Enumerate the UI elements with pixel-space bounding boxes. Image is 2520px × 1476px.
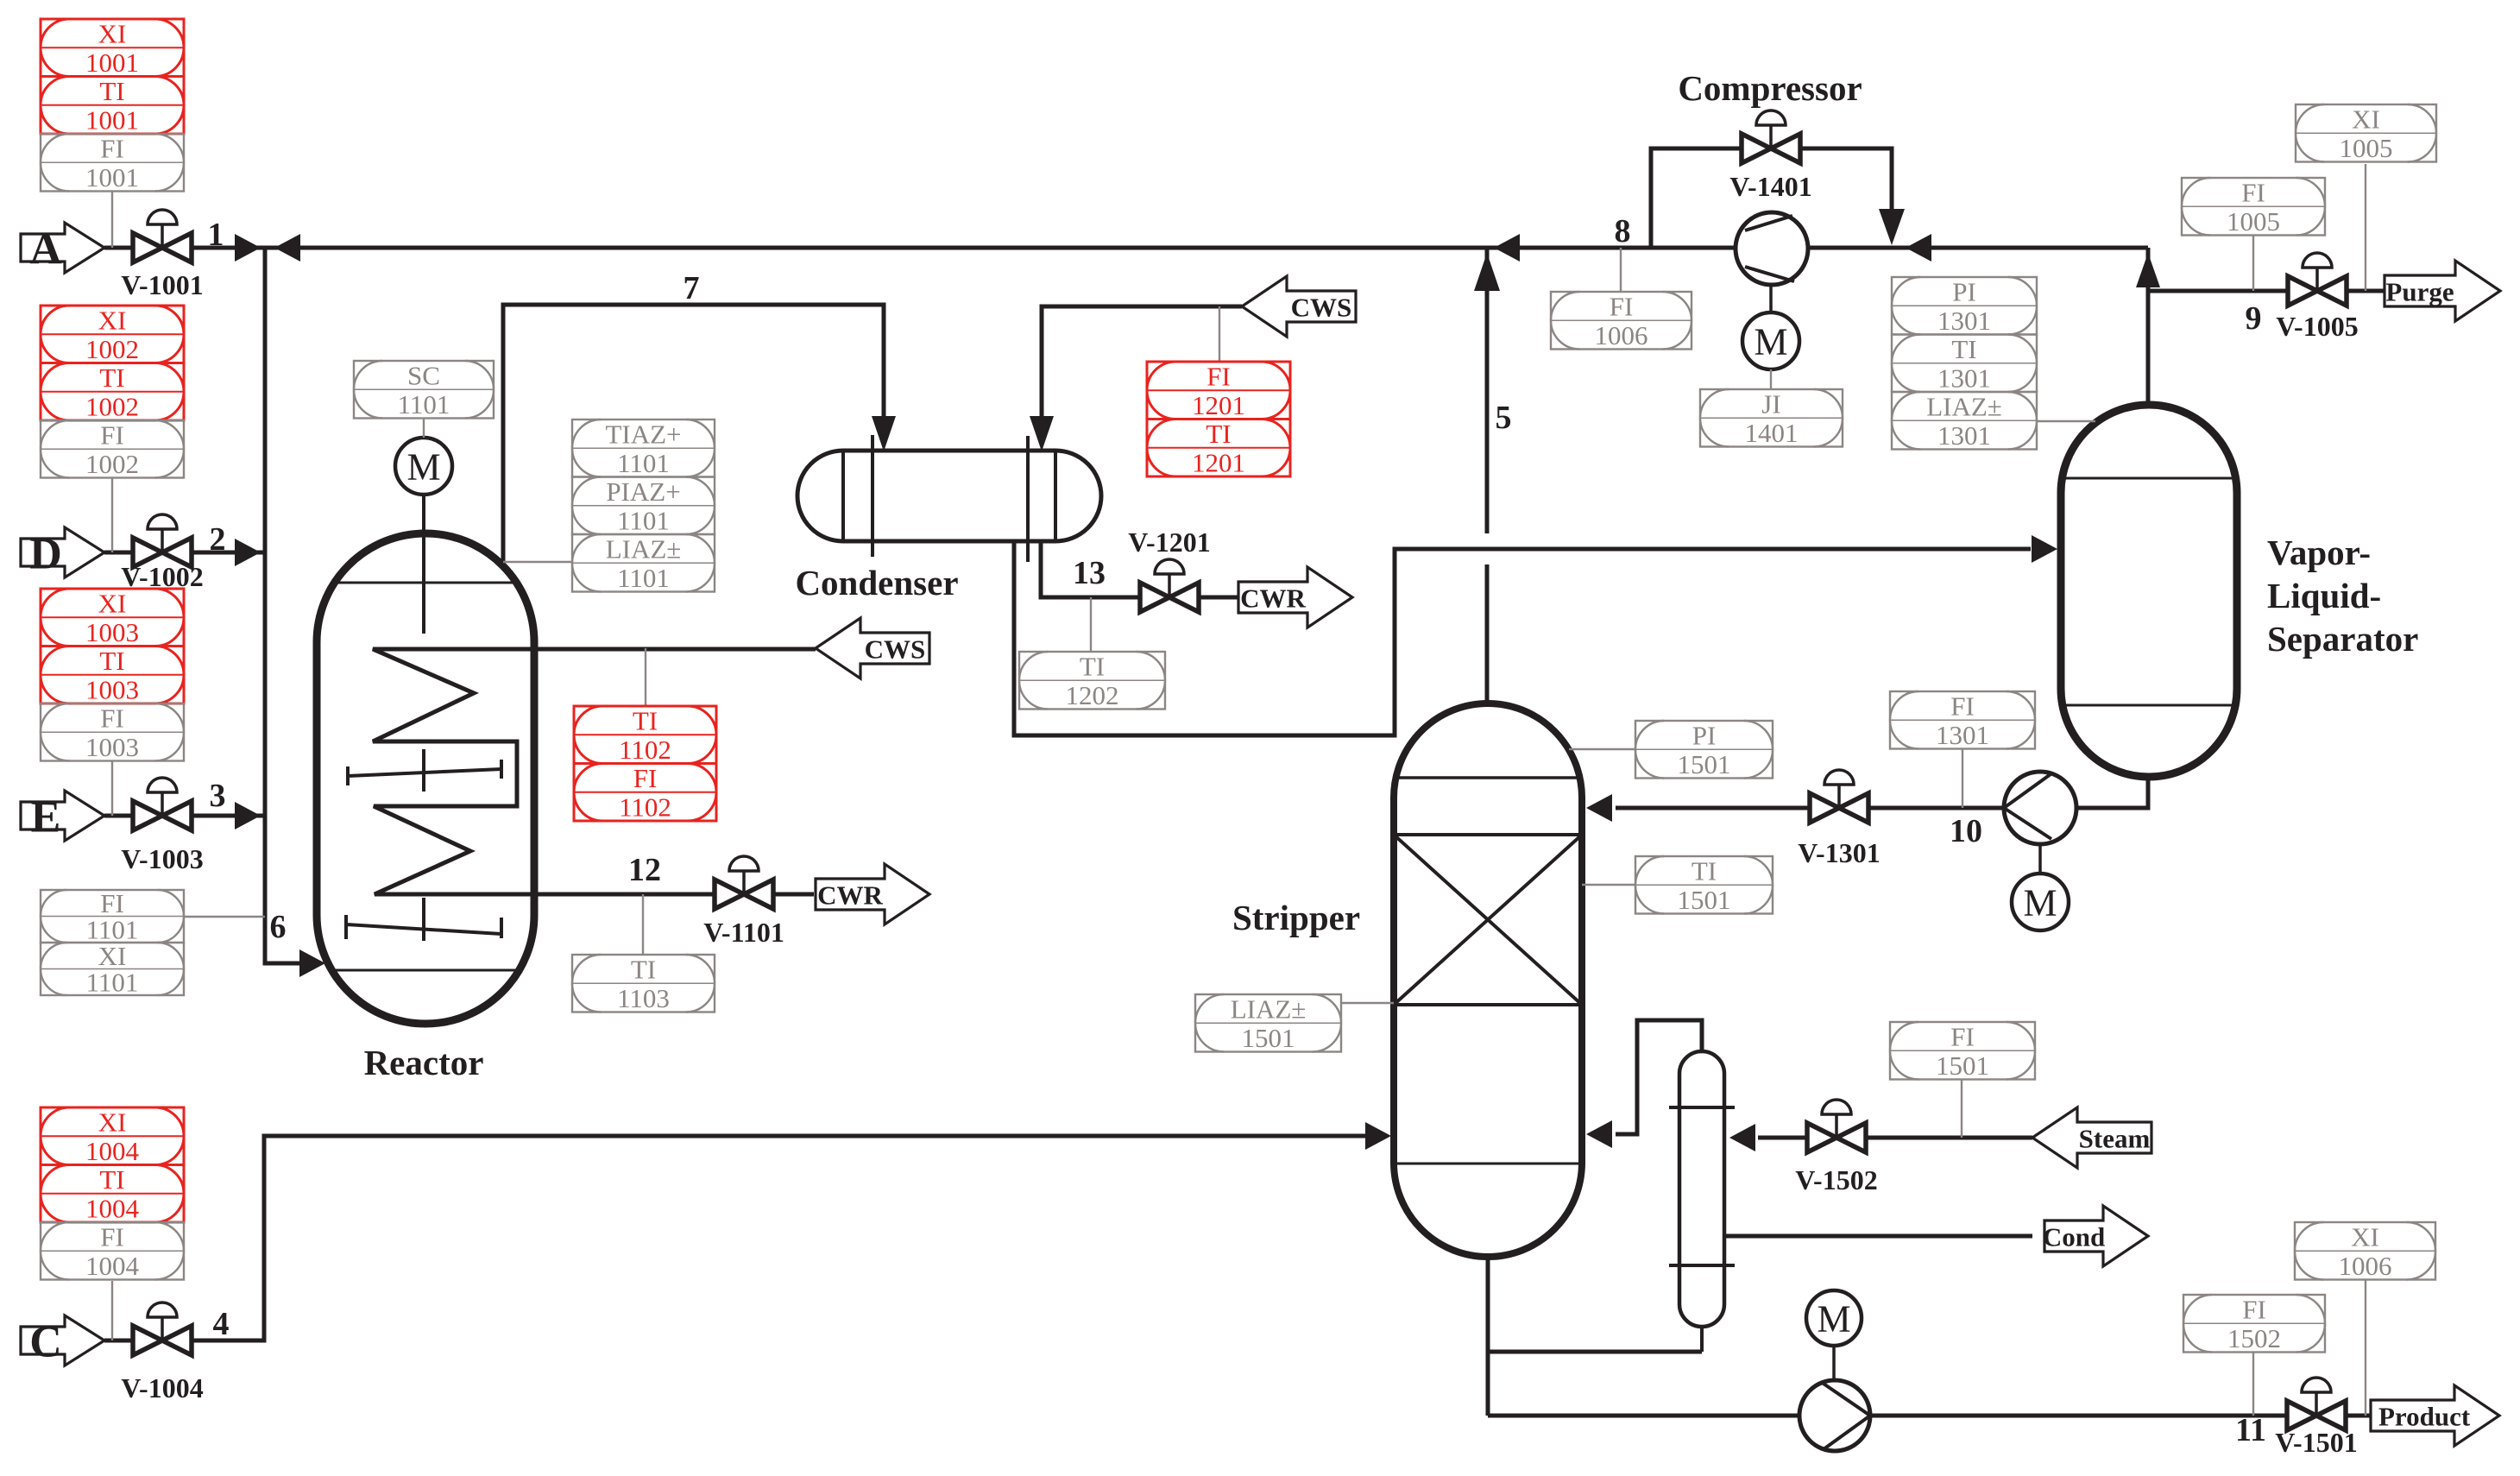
- vessel Condenser shell: [797, 451, 1101, 541]
- reactor top tangent chord: [336, 582, 515, 584]
- vessel steam reboiler pot: [1679, 1051, 1724, 1327]
- valve V-1001: [121, 210, 203, 300]
- svg-text:1501: 1501: [1242, 1023, 1295, 1053]
- condenser left tangent line: [841, 451, 845, 541]
- reactor agitator shaft lower segment: [422, 898, 425, 941]
- svg-text:SC: SC: [407, 361, 440, 391]
- wire feed header drop line: [265, 248, 300, 963]
- svg-text:V-1101: V-1101: [703, 917, 784, 948]
- feed arrow D: [21, 527, 104, 579]
- svg-text:XI: XI: [98, 1107, 127, 1138]
- svg-text:11: 11: [2235, 1412, 2266, 1448]
- feed arrow C: [21, 1315, 104, 1367]
- svg-text:CWS: CWS: [865, 634, 926, 665]
- wire product line to pump: [1488, 1414, 1800, 1418]
- instrument SC 1101: [354, 361, 494, 419]
- reboiler bottom stub: [1700, 1327, 1704, 1352]
- instrument TI 1501: [1635, 856, 1773, 915]
- svg-text:1201: 1201: [1192, 447, 1245, 477]
- svg-text:XI: XI: [98, 589, 127, 619]
- svg-text:V-1401: V-1401: [1729, 171, 1811, 202]
- svg-text:C: C: [29, 1318, 62, 1367]
- svg-text:1101: 1101: [617, 505, 670, 535]
- svg-text:3: 3: [210, 778, 226, 814]
- svg-text:V-1001: V-1001: [121, 269, 203, 300]
- connector TI/FI-1102 to coil line: [645, 648, 646, 706]
- wire stream 12 to CWR: [773, 893, 814, 897]
- separator bottom tangent chord: [2063, 704, 2235, 707]
- arrow stream 6 into reactor: [299, 949, 325, 977]
- arrow stream 3 into header: [235, 802, 261, 829]
- svg-text:CWR: CWR: [1240, 583, 1306, 614]
- svg-text:1001: 1001: [85, 162, 139, 192]
- stripper top chord: [1396, 776, 1579, 779]
- connector XI/TI/FI-1004 to stream 4: [111, 1281, 113, 1340]
- svg-text:1301: 1301: [1937, 420, 1991, 451]
- svg-text:1501: 1501: [1678, 749, 1731, 779]
- svg-text:1002: 1002: [85, 391, 139, 421]
- instrument stack PI/TI/LIAZ 1301: [1892, 277, 2037, 451]
- connector FI-1502 to product line: [2252, 1353, 2254, 1416]
- svg-text:1201: 1201: [1192, 390, 1245, 420]
- stripper liquid level chord: [1394, 1163, 1582, 1165]
- wire stream 10 valve to stripper: [1616, 806, 1810, 811]
- svg-text:Liquid-: Liquid-: [2267, 576, 2381, 615]
- svg-text:1003: 1003: [85, 674, 139, 704]
- block arrow CWR from reactor: [816, 864, 929, 924]
- block arrow Steam: [2032, 1107, 2151, 1168]
- svg-text:7: 7: [684, 270, 700, 306]
- block arrow Cond: [2043, 1206, 2148, 1266]
- compressor to motor link: [1769, 285, 1773, 312]
- svg-text:1101: 1101: [617, 563, 670, 593]
- wire condensate out line: [1724, 1234, 2032, 1239]
- svg-text:13: 13: [1073, 555, 1106, 591]
- svg-text:1001: 1001: [85, 47, 139, 78]
- svg-text:Stripper: Stripper: [1232, 898, 1360, 937]
- instrument stack TIAZ/PIAZ/LIAZ 1101: [572, 419, 715, 593]
- svg-text:FI: FI: [2241, 178, 2265, 208]
- svg-text:1004: 1004: [85, 1251, 140, 1281]
- valve V-1201: [1128, 527, 1210, 612]
- svg-text:6: 6: [270, 909, 287, 945]
- svg-text:Reactor: Reactor: [364, 1043, 484, 1082]
- wire reboiler vapor return to stripper: [1616, 1020, 1702, 1134]
- svg-text:V-1502: V-1502: [1795, 1164, 1877, 1195]
- svg-text:1: 1: [208, 217, 224, 253]
- separator pump to motor link: [2038, 844, 2042, 874]
- svg-text:M: M: [2023, 882, 2057, 924]
- svg-text:1002: 1002: [85, 449, 139, 479]
- svg-text:Purge: Purge: [2385, 277, 2454, 307]
- arrow stream 7 into condenser: [872, 416, 896, 451]
- svg-text:TI: TI: [1692, 856, 1717, 886]
- connector XI/TI/FI-1001 to stream 1: [111, 191, 113, 248]
- valve V-1401: [1729, 110, 1811, 202]
- svg-text:FI: FI: [1950, 691, 1975, 722]
- wire product line pump to valve: [1869, 1414, 2286, 1418]
- connector TI-1501 to stripper: [1582, 884, 1635, 886]
- wire condenser outlet to separator: [1014, 541, 2031, 735]
- connector FI/TI-1201 to CWS line: [1219, 306, 1220, 362]
- svg-text:TI: TI: [99, 363, 124, 393]
- wire main recycle line left of compressor: [265, 246, 1736, 250]
- stripper packing top line: [1394, 833, 1582, 836]
- instrument TI 1202: [1019, 652, 1165, 710]
- pump separator recycle: [2004, 772, 2076, 844]
- svg-text:V-1005: V-1005: [2276, 311, 2358, 342]
- arrow separator riser up: [2136, 253, 2160, 287]
- svg-text:TI: TI: [99, 76, 124, 106]
- wire stream 5 stripper overhead upper: [1485, 248, 1490, 533]
- svg-text:LIAZ±: LIAZ±: [606, 534, 682, 565]
- connector FI-1301 to stream 10: [1962, 749, 1963, 808]
- wire purge line after valve: [2347, 289, 2387, 293]
- wire product line valve to arrow: [2347, 1414, 2376, 1418]
- reactor agitator shaft mid segment: [422, 749, 425, 792]
- svg-text:TIAZ+: TIAZ+: [605, 419, 681, 450]
- svg-text:PIAZ+: PIAZ+: [606, 476, 680, 507]
- svg-text:1301: 1301: [1937, 363, 1991, 393]
- connector TIAZ-1101 stack to reactor: [503, 561, 572, 563]
- svg-text:1005: 1005: [2227, 206, 2280, 237]
- svg-text:TI: TI: [99, 646, 124, 676]
- connector LIAZ-1501 to stripper: [1341, 1002, 1394, 1004]
- condenser right tangent line: [1054, 451, 1057, 541]
- wire main recycle line right of compressor: [1808, 246, 2148, 250]
- arrow stream 5 up into recycle: [1474, 253, 1500, 291]
- instrument TI 1103: [572, 955, 715, 1013]
- valve V-1501: [2275, 1378, 2357, 1458]
- valve V-1502: [1795, 1100, 1877, 1195]
- svg-text:XI: XI: [98, 306, 127, 336]
- wire purge line: [2148, 289, 2288, 293]
- condenser right tube sheet: [1026, 436, 1030, 562]
- instrument FI 1502: [2183, 1295, 2325, 1353]
- svg-text:Vapor-: Vapor-: [2267, 533, 2371, 572]
- motor M reactor agitator: [395, 438, 452, 495]
- svg-text:1003: 1003: [85, 617, 139, 647]
- pump product: [1799, 1380, 1870, 1451]
- svg-text:XI: XI: [2351, 1222, 2379, 1252]
- svg-text:Compressor: Compressor: [1678, 68, 1862, 108]
- svg-text:1301: 1301: [1937, 306, 1991, 336]
- svg-text:FI: FI: [100, 703, 124, 734]
- svg-text:1006: 1006: [2339, 1251, 2392, 1281]
- reactor agitator shaft: [422, 495, 425, 634]
- svg-text:1005: 1005: [2340, 133, 2393, 163]
- wire compressor bypass right leg: [1800, 148, 1892, 220]
- valve V-1101: [703, 856, 784, 948]
- svg-text:Separator: Separator: [2267, 619, 2418, 659]
- connector XI/TI/FI-1002 to stream 2: [111, 477, 113, 552]
- instrument FI 1301: [1890, 691, 2035, 750]
- svg-text:E: E: [31, 793, 61, 842]
- wire stream 13 condenser CW outlet: [1041, 541, 1140, 597]
- svg-text:Steam: Steam: [2079, 1124, 2151, 1154]
- connector LIAZ-1301 to separator: [2037, 420, 2095, 422]
- svg-text:M: M: [1817, 1298, 1850, 1340]
- feed arrow A: [21, 223, 104, 274]
- svg-text:V-1301: V-1301: [1798, 837, 1880, 868]
- connector JI-1401 to motor: [1770, 369, 1772, 389]
- svg-text:1501: 1501: [1678, 885, 1731, 915]
- svg-text:V-1201: V-1201: [1128, 527, 1210, 558]
- svg-text:1103: 1103: [617, 983, 670, 1013]
- vessel Vapor-Liquid-Separator: [2061, 405, 2237, 777]
- svg-text:CWS: CWS: [1291, 293, 1352, 323]
- instrument XI 1006: [2295, 1222, 2435, 1281]
- valve V-1002: [121, 514, 203, 592]
- svg-text:TI: TI: [99, 1164, 124, 1195]
- wire stream 12 coil outlet: [532, 893, 715, 897]
- arrow steam into reboiler: [1729, 1124, 1755, 1151]
- motor M product pump: [1806, 1290, 1862, 1346]
- svg-text:FI: FI: [100, 420, 124, 451]
- valve V-1004: [121, 1303, 203, 1403]
- svg-text:V-1004: V-1004: [121, 1372, 203, 1403]
- svg-text:PI: PI: [1692, 721, 1717, 751]
- wire stream 7 reactor overhead: [503, 305, 884, 567]
- arrow bypass return down: [1879, 209, 1905, 245]
- wire CWS to condenser: [1042, 306, 1242, 425]
- reactor cooling coil with CWS line: [373, 649, 816, 894]
- block arrow CWR from condenser: [1238, 567, 1352, 628]
- arrow stream 4 into stripper: [1365, 1122, 1391, 1150]
- wire feed E stream 3: [104, 814, 265, 818]
- svg-text:2: 2: [210, 521, 226, 558]
- arrow stream 10 into stripper: [1586, 794, 1612, 822]
- reactor agitator lower paddle: [346, 915, 501, 939]
- svg-text:M: M: [406, 446, 440, 489]
- arrow CWS into condenser: [1030, 416, 1054, 451]
- svg-text:1003: 1003: [85, 732, 139, 762]
- stripper packing bottom line: [1394, 1003, 1582, 1006]
- product pump to motor link: [1832, 1346, 1836, 1380]
- wire stream 10 pump to valve: [1868, 806, 2004, 811]
- arrow reboiler return into stripper: [1586, 1120, 1612, 1148]
- svg-text:TI: TI: [1080, 652, 1105, 682]
- valve V-1003: [121, 778, 203, 874]
- svg-text:M: M: [1754, 321, 1787, 363]
- instrument stack TI/FI 1102: [574, 706, 716, 823]
- svg-text:D: D: [29, 530, 62, 579]
- connector TI-1103 to stream 12: [642, 894, 644, 955]
- svg-text:FI: FI: [1206, 362, 1231, 392]
- connector XI-1005 to purge line: [2365, 164, 2366, 291]
- svg-text:1202: 1202: [1066, 680, 1119, 710]
- compressor K-1401: [1736, 212, 1808, 285]
- wire separator top riser: [2146, 248, 2151, 405]
- connector PI-1501 to stripper: [1569, 748, 1635, 750]
- svg-text:JI: JI: [1761, 389, 1780, 419]
- instrument stack XI/TI/FI 1003: [41, 589, 184, 762]
- svg-text:1004: 1004: [85, 1193, 140, 1223]
- reboiler upper tube sheet tick: [1669, 1106, 1735, 1109]
- connector XI/TI/FI-1003 to stream 3: [111, 761, 113, 816]
- valve V-1005: [2276, 253, 2358, 342]
- svg-text:12: 12: [628, 852, 661, 888]
- instrument FI 1501: [1890, 1022, 2035, 1081]
- wire feed A stream 1: [104, 246, 265, 250]
- svg-text:XI: XI: [2352, 104, 2380, 135]
- svg-text:1001: 1001: [85, 104, 139, 135]
- instrument stack XI/TI/FI 1001: [41, 19, 184, 192]
- wire steam supply line: [1866, 1136, 2032, 1140]
- wire feed C stream 4: [104, 1136, 1365, 1340]
- arrow condenser outlet into separator: [2032, 535, 2057, 563]
- motor M separator pump: [2012, 874, 2069, 930]
- stripper packing diagonal 2: [1394, 835, 1582, 1005]
- svg-text:1502: 1502: [2227, 1323, 2281, 1353]
- connector XI-1006 to product line: [2365, 1280, 2366, 1416]
- svg-text:Condenser: Condenser: [795, 563, 958, 602]
- svg-text:1004: 1004: [85, 1136, 140, 1166]
- svg-text:LIAZ±: LIAZ±: [1926, 392, 2002, 422]
- arrow recycle into header junction: [274, 234, 300, 262]
- instrument stack FI/TI 1201: [1147, 362, 1290, 478]
- svg-text:8: 8: [1615, 213, 1631, 249]
- arrow recycle near separator junction: [1906, 234, 1931, 262]
- instrument XI 1005: [2296, 104, 2436, 163]
- svg-text:10: 10: [1950, 813, 1982, 849]
- svg-text:1401: 1401: [1745, 418, 1799, 448]
- svg-text:1101: 1101: [398, 389, 450, 419]
- svg-text:FI: FI: [633, 763, 658, 793]
- block arrow CWS to reactor: [816, 618, 929, 678]
- wire steam valve to reboiler: [1758, 1136, 1807, 1140]
- feed arrow E: [21, 791, 104, 842]
- svg-text:CWR: CWR: [817, 880, 883, 911]
- instrument FI 1005: [2182, 178, 2325, 237]
- instrument stack XI/TI/FI 1002: [41, 306, 184, 479]
- svg-text:FI: FI: [1950, 1022, 1975, 1052]
- wire feed D stream 2: [104, 551, 265, 555]
- block arrow CWS to condenser: [1242, 276, 1356, 337]
- connector FI-1005 to purge line: [2252, 236, 2254, 291]
- svg-text:1102: 1102: [619, 735, 671, 765]
- svg-text:1501: 1501: [1936, 1050, 1989, 1081]
- svg-text:FI: FI: [100, 1222, 124, 1252]
- wire compressor bypass left leg: [1651, 148, 1742, 248]
- svg-text:1102: 1102: [619, 792, 671, 822]
- svg-text:FI: FI: [100, 134, 124, 164]
- svg-text:LIAZ±: LIAZ±: [1231, 994, 1307, 1025]
- wire reboiler bottoms line: [1488, 1350, 1702, 1354]
- connector SC-1101 to agitator motor: [423, 418, 425, 438]
- svg-text:V-1003: V-1003: [121, 843, 203, 874]
- instrument stack XI/TI/FI 1004: [41, 1107, 184, 1281]
- arrow stream 1 into header: [235, 234, 261, 262]
- svg-text:Product: Product: [2378, 1402, 2471, 1432]
- condenser left tube sheet: [871, 435, 874, 557]
- wire separator bottoms to pump: [2076, 777, 2148, 808]
- instrument JI 1401: [1700, 389, 1843, 448]
- arrow stream 2 into header: [235, 539, 261, 566]
- svg-text:5: 5: [1496, 400, 1512, 436]
- stripper packing diagonal 1: [1394, 835, 1582, 1005]
- connector FI-1006 to recycle line: [1620, 248, 1622, 292]
- instrument FI 1006: [1551, 292, 1692, 350]
- connector FI/XI-1101 to feed header: [184, 916, 265, 918]
- block arrow Purge: [2385, 261, 2500, 321]
- svg-text:A: A: [29, 225, 62, 274]
- svg-text:1101: 1101: [617, 448, 670, 478]
- svg-text:1002: 1002: [85, 334, 139, 364]
- vessel Reactor: [317, 533, 534, 1024]
- valve V-1301: [1798, 770, 1880, 868]
- motor M compressor: [1742, 312, 1799, 369]
- instrument LIAZ 1501: [1195, 994, 1341, 1053]
- svg-text:TI: TI: [1206, 419, 1231, 449]
- instrument stack FI/XI 1101: [41, 888, 184, 998]
- separator top tangent chord: [2062, 477, 2236, 480]
- svg-text:1301: 1301: [1936, 720, 1989, 750]
- svg-text:TI: TI: [631, 955, 656, 985]
- connector FI-1501 to steam line: [1961, 1080, 1962, 1138]
- svg-text:9: 9: [2246, 300, 2262, 337]
- svg-text:XI: XI: [98, 19, 127, 49]
- svg-text:TI: TI: [1951, 334, 1976, 364]
- svg-text:V-1501: V-1501: [2275, 1427, 2357, 1458]
- instrument PI 1501: [1635, 721, 1773, 779]
- reboiler lower tube sheet tick: [1669, 1264, 1735, 1267]
- svg-text:FI: FI: [2242, 1295, 2266, 1325]
- svg-text:4: 4: [213, 1306, 230, 1342]
- vessel Stripper: [1394, 703, 1582, 1257]
- reactor agitator upper paddle: [348, 760, 501, 785]
- svg-text:1006: 1006: [1595, 320, 1648, 350]
- svg-text:1101: 1101: [86, 968, 139, 998]
- wire stream 5 stripper overhead lower: [1485, 565, 1490, 703]
- svg-text:Cond: Cond: [2043, 1222, 2105, 1252]
- wire stripper bottoms line: [1486, 1257, 1490, 1416]
- connector TI-1202 to stream 13: [1090, 597, 1092, 652]
- wire stream 13 to CWR: [1199, 596, 1239, 600]
- reactor bottom tangent chord: [333, 969, 518, 972]
- block arrow Product: [2371, 1385, 2499, 1446]
- svg-text:TI: TI: [633, 706, 658, 736]
- svg-text:PI: PI: [1952, 277, 1976, 307]
- arrow recycle at stream 5 junction: [1494, 234, 1520, 262]
- svg-text:FI: FI: [1610, 292, 1634, 322]
